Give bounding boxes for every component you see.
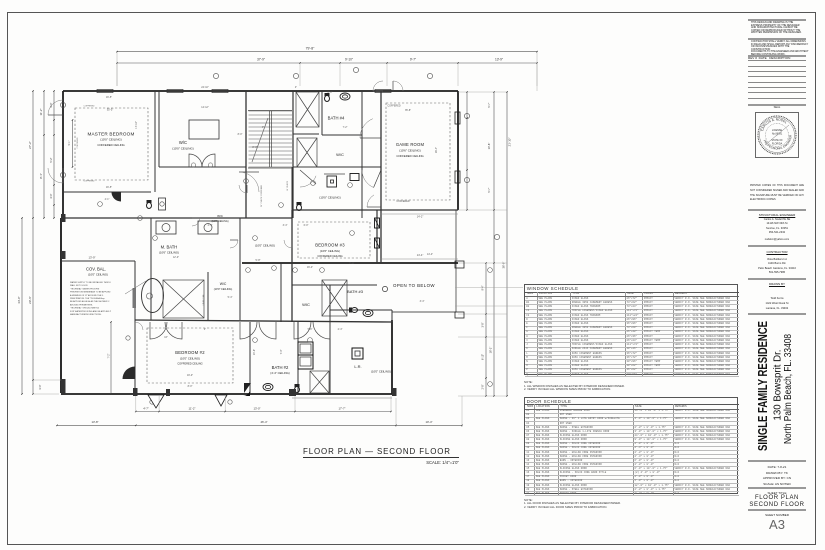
svg-text:COFFERED: COFFERED [396, 200, 409, 203]
svg-text:"TECHSEAL" WATER PROOFIN: "TECHSEAL" WATER PROOFIN [70, 287, 100, 290]
svg-text:(10'0" CEILING): (10'0" CEILING) [180, 357, 200, 361]
svg-text:(10'6" CEILING): (10'6" CEILING) [399, 149, 420, 153]
svg-text:14'-4": 14'-4" [417, 253, 424, 257]
svg-text:W/C: W/C [336, 152, 344, 157]
svg-text:34'' CHECK COFFERED: 34'' CHECK COFFERED [261, 184, 263, 207]
svg-text:3'-8": 3'-8" [482, 322, 485, 327]
svg-text:7'-2": 7'-2" [343, 126, 348, 129]
svg-text:COFFERED: COFFERED [77, 137, 79, 149]
svg-text:(10'0" CEILING): (10'0" CEILING) [319, 196, 340, 200]
svg-text:6'-0": 6'-0" [304, 224, 309, 227]
svg-text:PREVENTION MEMBRANE TO BE APPL: PREVENTION MEMBRANE TO BE APPLIED [70, 291, 111, 294]
svg-text:37'-9": 37'-9" [257, 58, 265, 62]
svg-text:14'-12": 14'-12" [201, 106, 209, 109]
svg-text:COFFERED CEILING: COFFERED CEILING [317, 254, 342, 258]
svg-text:BE APPLIED AS HIGH AS THE SHOW: BE APPLIED AS HIGH AS THE SHOWER C [70, 300, 110, 303]
svg-text:8'-0": 8'-0" [238, 133, 243, 136]
svg-text:BATH #4: BATH #4 [328, 116, 345, 121]
svg-text:7'-2": 7'-2" [108, 353, 111, 358]
svg-text:COFFERED: COFFERED [387, 105, 400, 108]
svg-text:2'-8": 2'-8" [482, 384, 485, 389]
svg-text:W/C: W/C [217, 214, 224, 218]
svg-text:(10'0" CEILING): (10'0" CEILING) [172, 147, 193, 151]
svg-text:13'-0": 13'-0" [253, 407, 260, 411]
svg-text:16": 16" [164, 336, 168, 339]
svg-text:SINGLE FAMILY RESIDENCE: SINGLE FAMILY RESIDENCE [756, 321, 770, 451]
svg-text:OPEN TO BELOW: OPEN TO BELOW [393, 283, 435, 288]
svg-text:4": 4" [295, 86, 297, 89]
svg-text:(10'0" CEILING): (10'0" CEILING) [255, 244, 275, 248]
svg-text:3'-0": 3'-0" [38, 384, 42, 389]
svg-text:COFFERED: COFFERED [84, 180, 96, 182]
svg-text:8'-0": 8'-0" [252, 145, 257, 149]
svg-text:16'-5": 16'-5" [106, 96, 112, 99]
svg-text:29'-6": 29'-6" [28, 296, 32, 304]
svg-text:14'-4": 14'-4" [427, 253, 433, 256]
svg-text:WATER SUPPLY TO BE INSTALLED T: WATER SUPPLY TO BE INSTALLED THROU [70, 281, 111, 284]
svg-text:9'-7": 9'-7" [410, 58, 416, 62]
svg-text:(10'0" CEILING): (10'0" CEILING) [371, 370, 391, 374]
svg-text:(10'6" CEILING): (10'6" CEILING) [159, 251, 179, 255]
svg-text:AROUND PERIMETERS.: AROUND PERIMETERS. [70, 303, 93, 306]
svg-text:FOR WATERPROOFING AND BE APPLI: FOR WATERPROOFING AND BE APPLIED P [70, 310, 112, 313]
svg-text:2'-4": 2'-4" [208, 224, 213, 227]
svg-text:11'-2": 11'-2" [39, 109, 43, 116]
svg-text:GAME ROOM: GAME ROOM [396, 142, 425, 147]
svg-text:8'-0": 8'-0" [188, 385, 193, 388]
svg-text:2'-4": 2'-4" [338, 328, 343, 331]
svg-text:46'-4": 46'-4" [260, 420, 267, 424]
svg-text:4'-1": 4'-1" [105, 198, 110, 201]
svg-text:19'-0": 19'-0" [187, 374, 193, 377]
svg-text:LINEN CAB: LINEN CAB [202, 294, 205, 305]
svg-text:79'-8": 79'-8" [306, 47, 315, 51]
svg-text:4'-0": 4'-0" [49, 193, 53, 198]
svg-text:COFFERED CEILING: COFFERED CEILING [97, 143, 124, 147]
svg-text:6'-4": 6'-4" [350, 262, 355, 265]
svg-text:5'-8": 5'-8" [256, 259, 261, 262]
svg-text:COFFERED CEILING: COFFERED CEILING [177, 362, 202, 366]
svg-text:10'-8": 10'-8" [487, 143, 491, 150]
svg-text:24'-10": 24'-10" [201, 86, 209, 89]
svg-text:26'-4": 26'-4" [435, 147, 438, 153]
svg-text:COV. BAL.: COV. BAL. [86, 267, 106, 272]
svg-text:(10'0" CEILING): (10'0" CEILING) [100, 138, 121, 142]
svg-text:FLORIDA: FLORIDA [772, 142, 783, 145]
svg-text:BEDROOM #3: BEDROOM #3 [315, 243, 345, 248]
svg-text:3'-4": 3'-4" [420, 300, 425, 303]
svg-text:WALL NOT FLOOR.: WALL NOT FLOOR. [70, 284, 88, 287]
svg-text:34'-0": 34'-0" [17, 296, 21, 303]
svg-text:L.R.: L.R. [354, 364, 361, 369]
svg-text:W/C: W/C [179, 140, 187, 145]
svg-text:5'-4": 5'-4" [228, 296, 233, 299]
svg-text:W/C: W/C [220, 282, 227, 286]
svg-text:16'-5": 16'-5" [106, 186, 112, 189]
svg-text:(10'0" CEILING): (10'0" CEILING) [214, 287, 233, 291]
svg-text:*: * [777, 136, 778, 138]
svg-text:(10'0" CEILING): (10'0" CEILING) [88, 273, 108, 277]
svg-text:M. BATH: M. BATH [161, 245, 178, 250]
svg-text:10'-4": 10'-4" [425, 420, 432, 424]
svg-text:9'-1": 9'-1" [68, 140, 71, 145]
svg-text:BATH #3: BATH #3 [347, 289, 364, 294]
svg-text:17'-10": 17'-10" [135, 121, 138, 129]
svg-text:(10'6" CEILING): (10'6" CEILING) [320, 249, 340, 253]
svg-text:6'-10": 6'-10" [482, 354, 485, 360]
svg-text:9'-4": 9'-4" [482, 285, 485, 290]
svg-text:COFFERED: COFFERED [84, 105, 96, 107]
svg-text:5'-7": 5'-7" [487, 187, 491, 192]
svg-text:35'-8": 35'-8" [405, 109, 411, 112]
svg-text:WIC: WIC [302, 302, 310, 307]
svg-text:8'-1": 8'-1" [39, 173, 43, 179]
svg-text:16'-4": 16'-4" [307, 266, 313, 269]
svg-text:(4'-4" CEILING): (4'-4" CEILING) [270, 371, 289, 375]
svg-text:A MINIMUM OF 12" AROUND THE D: A MINIMUM OF 12" AROUND THE D [70, 294, 104, 297]
svg-text:24'-6": 24'-6" [253, 349, 256, 355]
svg-text:13'-9": 13'-9" [88, 256, 95, 260]
svg-text:13'-8": 13'-8" [91, 420, 98, 424]
svg-text:5'-7": 5'-7" [487, 102, 491, 107]
svg-text:3'-4": 3'-4" [283, 224, 288, 227]
svg-text:BEDROOM #2: BEDROOM #2 [175, 350, 205, 355]
svg-text:5'-2": 5'-2" [49, 157, 53, 162]
svg-text:7'-0": 7'-0" [280, 349, 283, 354]
svg-text:9'-10": 9'-10" [345, 58, 353, 62]
svg-text:21'-10": 21'-10" [508, 138, 512, 147]
svg-text:27'-2": 27'-2" [28, 141, 32, 149]
svg-text:4'-7": 4'-7" [143, 407, 149, 411]
svg-text:BATH #2: BATH #2 [272, 365, 289, 370]
svg-text:MANUFACTURERS DIRECTIONS.: MANUFACTURERS DIRECTIONS. [70, 313, 102, 316]
svg-text:"TECHSEAL" SHOULD MEET A: "TECHSEAL" SHOULD MEET A [70, 307, 99, 310]
svg-text:PENETRATION. THE "TECHSEAL&qu: PENETRATION. THE "TECHSEAL&qu [70, 297, 105, 300]
svg-text:11'-2": 11'-2" [189, 407, 196, 411]
svg-text:4'-0": 4'-0" [49, 102, 53, 107]
svg-text:(10'0" CEILING): (10'0" CEILING) [211, 220, 228, 223]
svg-text:12'-0": 12'-0" [173, 256, 179, 259]
svg-text:North Palm Beach, FL. 33408: North Palm Beach, FL. 33408 [783, 334, 794, 444]
svg-text:8'-0": 8'-0" [328, 91, 333, 94]
svg-text:13'-9": 13'-9" [495, 58, 503, 62]
svg-text:17'-7": 17'-7" [338, 407, 345, 411]
svg-text:16'-2": 16'-2" [489, 347, 493, 354]
svg-text:36'-0": 36'-0" [502, 262, 506, 269]
svg-text:14' CHECK: 14' CHECK [287, 180, 289, 191]
svg-text:COFFERED CEILING: COFFERED CEILING [396, 154, 423, 158]
svg-text:4": 4" [262, 126, 264, 129]
svg-text:5'-6": 5'-6" [308, 328, 313, 331]
svg-text:4": 4" [204, 328, 206, 331]
svg-text:MASTER BEDROOM: MASTER BEDROOM [88, 132, 135, 137]
svg-text:14'-2": 14'-2" [417, 215, 424, 219]
